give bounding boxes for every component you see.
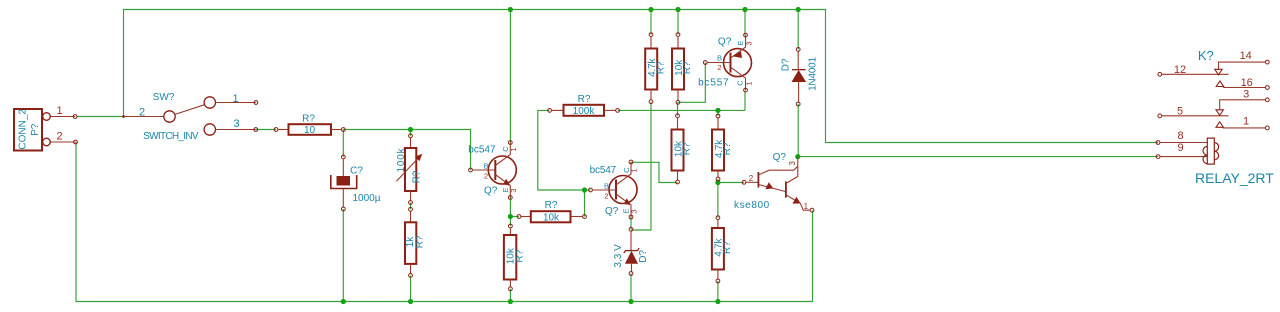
resistor R? 10k upper vertical [676, 33, 680, 37]
bc557 base pin [703, 61, 707, 65]
wire: R 10 to bc547 Q1 base [343, 130, 470, 171]
svg-text:3: 3 [630, 209, 639, 213]
svg-text:2: 2 [484, 172, 488, 181]
wire: kse800 collector node to relay coil pin 9 [798, 156, 1158, 158]
relay contact 2 NO pin 1 [1216, 122, 1223, 128]
svg-text:R?: R? [415, 235, 426, 248]
relay coil pin 9 [1156, 155, 1160, 159]
resistor R? 4.7k lower vertical [716, 114, 720, 118]
svg-text:B: B [717, 53, 722, 62]
wire: R 100k to bc557 collector net [618, 109, 745, 111]
svg-text:1000µ: 1000µ [352, 193, 380, 204]
svg-text:Q?: Q? [718, 37, 732, 48]
junction: GND rail / zener [628, 299, 633, 304]
svg-text:R?: R? [655, 61, 666, 74]
svg-text:2: 2 [56, 131, 62, 143]
svg-text:C: C [736, 80, 745, 86]
trimmer resistor R? 100k [409, 134, 413, 138]
switch throw pin 3 [204, 124, 215, 135]
svg-text:bc557: bc557 [698, 78, 729, 89]
svg-text:2: 2 [139, 107, 145, 119]
resistor R? 10k vertical [509, 224, 513, 228]
svg-text:D?: D? [781, 58, 792, 71]
svg-text:8: 8 [1177, 130, 1183, 142]
svg-text:R?: R? [514, 249, 525, 262]
relay contact 2 NC pin 3 [1220, 100, 1266, 110]
svg-text:B: B [483, 162, 488, 171]
svg-text:R?: R? [578, 94, 591, 105]
junction: rail / Q1 collector [508, 7, 513, 12]
svg-text:3: 3 [788, 161, 797, 166]
wire: R 10k upper to bc557 base [678, 63, 705, 103]
zener diode D? 3,3 V [629, 227, 633, 231]
wire: switch pin 3 to R 10 [256, 129, 276, 131]
wire: Q2 base node to base pin [585, 189, 591, 191]
wire: node down to capacitor C [342, 130, 344, 157]
resistor R? 100k horizontal [548, 109, 552, 113]
svg-text:R?: R? [682, 142, 693, 155]
svg-text:3,3 V: 3,3 V [613, 244, 624, 268]
switch SW? SWITCH_INV pole pin 2 [164, 111, 175, 122]
diode D? 1N4001 [796, 48, 800, 52]
wire: top rail to bc547 Q1 collector [509, 10, 511, 143]
svg-text:Q?: Q? [773, 152, 787, 163]
junction: 100k net / 4.7k lower [715, 108, 720, 113]
wire: top rail to R 4.7k upper [650, 10, 652, 35]
wire: GND bottom rail from CONN_2 pin 2 to kse800 emitter [76, 142, 813, 302]
svg-text:bc547: bc547 [468, 145, 496, 156]
resistor R? 10k horizontal [517, 215, 521, 219]
svg-text:kse800: kse800 [734, 200, 770, 211]
relay K? RELAY_2RT contact 1 common pin 12 [1158, 72, 1162, 76]
wire: diode 1N4001 anode down to kse800 collector node [797, 104, 799, 157]
resistor R? 10k lower vertical [676, 114, 680, 118]
wire: Q1 emitter node to R 10k horizontal [510, 216, 519, 218]
svg-text:CONN_2: CONN_2 [17, 109, 28, 150]
svg-text:12: 12 [1174, 64, 1186, 76]
transistor Q? bc547 Q2 [609, 176, 637, 204]
svg-text:D?: D? [638, 249, 649, 262]
junction: rail / diode [796, 7, 801, 12]
svg-text:2: 2 [604, 191, 608, 200]
svg-text:K?: K? [1198, 48, 1214, 63]
junction: rail / bc557 emitter [742, 7, 747, 12]
transistor Q? bc547 Q1 [488, 156, 516, 184]
Q2 base pin [589, 188, 593, 192]
relay coil [1207, 138, 1214, 164]
svg-text:B: B [604, 181, 609, 190]
junction: R10 net / trimmer [408, 127, 413, 132]
junction: GND rail / 10k vertical [508, 299, 513, 304]
wire: 100k net to R 4.7k lower top [717, 110, 719, 116]
transistor Q? bc557 PNP [724, 49, 752, 77]
svg-text:14: 14 [1240, 50, 1252, 62]
wire: stub to trimmer 100k top [410, 130, 412, 136]
wire: R 10k upper to R 10k lower link [677, 102, 679, 115]
svg-text:5: 5 [1177, 105, 1183, 117]
wire: top rail to diode 1N4001 cathode [797, 10, 799, 50]
svg-text:3: 3 [745, 41, 754, 45]
wire: zener anode to GND rail [630, 274, 632, 302]
svg-text:R?: R? [545, 200, 558, 211]
wire: resistor 1k to GND rail [410, 275, 412, 301]
svg-text:100k: 100k [396, 147, 407, 172]
resistor R? 10 horizontal [274, 128, 278, 132]
svg-text:16: 16 [1241, 77, 1253, 89]
junction: GND rail / 1k [408, 299, 413, 304]
svg-text:1: 1 [1243, 115, 1249, 127]
wire: R 4.7k upper down to zener node [631, 102, 651, 230]
junction: Q1 emitter node [508, 214, 513, 219]
svg-text:Q?: Q? [484, 186, 498, 197]
wire: capacitor C to GND rail [342, 209, 344, 302]
transistor Q? kse800 darlington [742, 180, 746, 184]
svg-text:Q?: Q? [605, 206, 619, 217]
wire: bc547 Q1 emitter down to node [509, 197, 511, 217]
wire: 4.7k node to kse800 base [718, 182, 744, 184]
relay coil pin 8 [1156, 141, 1160, 145]
wire: CONN_2 pin 1 to switch node [77, 116, 124, 118]
connector pin 1 [43, 113, 51, 121]
svg-text:100k: 100k [573, 106, 596, 117]
wire: R 4.7k lower to R 4.7k bottom [717, 179, 719, 218]
trimmer arrow [396, 156, 420, 181]
svg-text:R?: R? [302, 114, 315, 125]
svg-text:3: 3 [1243, 88, 1249, 100]
capacitor C? 1000u electrolytic [341, 155, 345, 159]
svg-text:9: 9 [1177, 142, 1183, 154]
wire: bc547 Q2 collector to R 10k lower [631, 162, 678, 182]
wire: top rail to bc557 emitter [744, 10, 746, 36]
switch lever [175, 105, 205, 115]
svg-text:10: 10 [304, 125, 316, 136]
svg-text:bc547: bc547 [590, 165, 617, 176]
svg-text:C?: C? [350, 166, 363, 177]
svg-text:SW?: SW? [153, 92, 175, 103]
wire: net up to bc557 collector [744, 91, 746, 111]
wire: top rail to R 10k upper [677, 10, 679, 35]
svg-text:1: 1 [804, 202, 809, 211]
svg-text:R?: R? [682, 61, 693, 74]
svg-text:2: 2 [717, 63, 721, 72]
svg-text:3: 3 [233, 118, 239, 130]
svg-text:R?: R? [722, 142, 733, 155]
connector P? CONN_2 body [14, 109, 42, 151]
svg-text:2: 2 [749, 174, 754, 183]
wire: trimmer 100k to resistor 1k [410, 203, 412, 210]
resistor R? 1k vertical [409, 207, 413, 211]
wire: R 100k left around to Q2 base node [538, 110, 585, 190]
Q1 base pin [469, 168, 473, 172]
svg-text:RELAY_2RT: RELAY_2RT [1195, 170, 1274, 186]
wire: R 4.7k bottom to GND rail [717, 281, 719, 302]
resistor R? 4.7k upper vertical [649, 33, 653, 37]
svg-text:R?: R? [722, 241, 733, 254]
junction: kse800 collector node [795, 154, 800, 159]
svg-text:1N4001: 1N4001 [808, 56, 819, 90]
svg-text:1: 1 [56, 105, 62, 117]
junction: Q2 base node [582, 187, 587, 192]
junction: GND rail / capacitor [341, 299, 346, 304]
wire: R 10k vertical to GND rail [509, 289, 511, 302]
junction: rail / 10k upper [675, 7, 680, 12]
wire: R 10k horizontal to Q2 base node [584, 190, 586, 217]
wire: VCC top rail and drop to relay coil pin 8 [124, 10, 1159, 143]
svg-text:1: 1 [745, 81, 754, 85]
connector pin 2 [43, 138, 51, 146]
svg-text:R?: R? [411, 170, 422, 183]
svg-text:P?: P? [30, 123, 41, 136]
svg-text:1: 1 [232, 93, 238, 105]
wire: Q1 emitter node to R 10k vertical [509, 217, 511, 227]
svg-text:1: 1 [630, 169, 639, 173]
svg-text:E: E [736, 40, 745, 45]
relay contact 2 common pin 5 [1158, 114, 1162, 118]
svg-text:10k: 10k [543, 213, 560, 224]
junction: 4.7k node / kse800 base [715, 180, 720, 185]
svg-text:SWITCH_INV: SWITCH_INV [143, 131, 199, 142]
relay contact 1 NC pin 14 [1219, 62, 1266, 70]
svg-text:3: 3 [509, 188, 518, 192]
svg-text:1: 1 [509, 147, 518, 151]
resistor R? 4.7k bottom vertical [716, 216, 720, 220]
switch throw pin 1 [204, 97, 215, 108]
junction: rail / 4.7k upper [648, 7, 653, 12]
relay contact 1 NO pin 16 [1216, 81, 1224, 87]
wire: bc547 Q2 emitter to zener cathode [630, 217, 632, 229]
junction: GND rail / 4.7k bottom [715, 299, 720, 304]
